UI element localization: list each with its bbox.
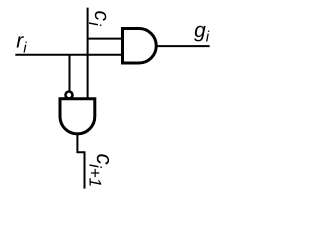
- svg-text:ci: ci: [85, 11, 113, 28]
- wire: g_i output wire: [156, 45, 210, 47]
- wire: c_i+1 output wire with jog: [77, 134, 84, 189]
- wire: tap from r_i down to inverted input bubble: [69, 55, 71, 91]
- and-gate G1: top AND gate (c_i AND r_i -> g_i): [123, 29, 157, 64]
- bubble: inversion bubble on NAND-style input: [66, 92, 73, 99]
- svg-text:ci+1: ci+1: [85, 154, 117, 188]
- svg-text:ri: ri: [16, 30, 27, 57]
- svg-text:gi: gi: [194, 19, 210, 46]
- and-gate G2: bottom AND gate with inverted input (NOT r_i AND c_i -> c_i+1): [60, 99, 95, 134]
- wire: r_i horizontal input wire: [15, 54, 122, 56]
- wire: stub from c_i net to AND gate top input: [88, 38, 122, 40]
- wire: c_i vertical net: [87, 8, 89, 99]
